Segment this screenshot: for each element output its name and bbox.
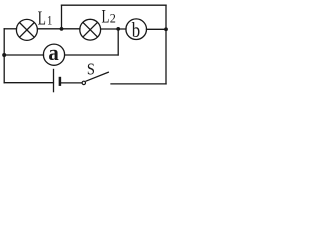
switch S blade [86, 72, 109, 81]
wire L1 to L2 through J1 [37, 28, 80, 30]
wire right rail [165, 5, 167, 84]
node right rail junction dot [164, 27, 168, 31]
meter b [126, 19, 147, 40]
node J2 junction dot [116, 27, 120, 31]
node J1 junction dot [60, 27, 64, 31]
wire battery to switch pivot [61, 82, 82, 84]
svg-text:2: 2 [110, 12, 116, 26]
svg-text:1: 1 [47, 14, 52, 28]
svg-text:b: b [132, 19, 140, 42]
wire switch to bottom right [111, 83, 166, 85]
node left rail junction dot [2, 53, 6, 57]
wire J2 vertical [117, 29, 119, 55]
wire b to right rail [147, 28, 167, 30]
svg-text:S: S [87, 60, 95, 78]
switch S pivot circle [82, 81, 85, 84]
wire middle left rail to ammeter [4, 54, 43, 56]
wire row1 left to L1 [4, 28, 16, 30]
wire ammeter to J2 corner [65, 54, 118, 56]
lamp L1 [16, 19, 37, 40]
svg-text:L: L [38, 7, 46, 29]
battery cell: long plate [53, 69, 55, 93]
meter a (ammeter) [43, 44, 64, 65]
svg-text:a: a [48, 41, 59, 66]
wire L2 to b through J2 [101, 28, 126, 30]
wire bottom left to battery [4, 82, 53, 84]
wire left rail [3, 29, 5, 83]
wire top rail [62, 4, 167, 6]
svg-text:L: L [102, 6, 110, 27]
battery cell: short thick plate [59, 77, 62, 86]
wire J1 vertical [61, 5, 63, 29]
lamp L2 [80, 19, 101, 40]
